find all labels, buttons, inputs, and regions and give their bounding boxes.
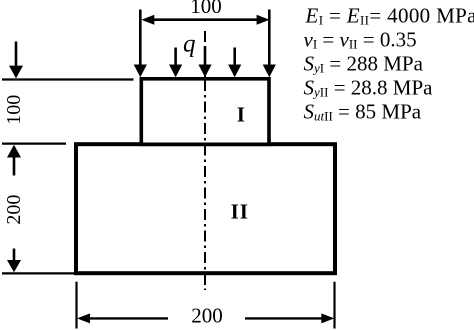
centerline (vertical dash-dot axis) [204, 31, 206, 290]
block I [141, 79, 269, 145]
load arrow 1 (left, shares top extension line) [134, 10, 147, 78]
svg-text:SyII = 28.8 MPa: SyII = 28.8 MPa [304, 76, 434, 100]
svg-text:I: I [237, 103, 245, 127]
load arrow 4 [228, 48, 241, 78]
left extension line (top of block I) [2, 78, 134, 80]
bottom extension line (left) [75, 282, 77, 329]
block II [76, 144, 335, 273]
svg-text:II: II [231, 200, 249, 224]
load arrow 2 [169, 48, 182, 78]
svg-text:SutII = 85 MPa: SutII = 85 MPa [304, 100, 422, 124]
left dim arrow down (above 100 span) [9, 42, 23, 79]
centerline (segment inside blocks, redrawn over white fills) [204, 80, 206, 290]
svg-text:200: 200 [191, 304, 223, 328]
bottom extension line (right) [333, 282, 335, 329]
top dimension line with arrowheads [141, 15, 269, 25]
bottom dimension line with arrowheads [77, 313, 334, 323]
left extension line (bottom of block II) [2, 272, 76, 274]
left extension line (top of block II) [2, 143, 66, 145]
left dim arrow down (bottom of block II) [7, 249, 21, 273]
svg-text:100: 100 [3, 95, 25, 125]
svg-text:200: 200 [3, 195, 25, 225]
svg-text:SyI = 288 MPa: SyI = 288 MPa [304, 52, 424, 76]
material properties text block [304, 4, 474, 124]
svg-text:vI = vII = 0.35: vI = vII = 0.35 [304, 28, 417, 52]
svg-text:q: q [183, 31, 196, 58]
svg-text:100: 100 [190, 0, 222, 18]
left dim arrow up (below top of block II) [7, 145, 21, 176]
load arrow 3 (on centerline) [198, 46, 211, 77]
svg-text:EI = EII= 4000 MPa: EI = EII= 4000 MPa [305, 4, 474, 28]
load arrow 5 (right, shares top extension line) [263, 10, 276, 78]
